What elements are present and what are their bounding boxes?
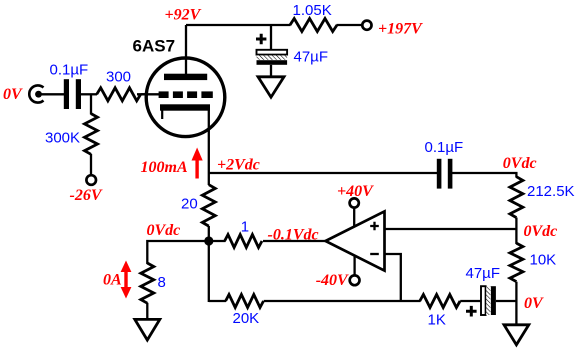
capacitor C3 0.1uF — [437, 159, 453, 189]
wire op-amp minus input — [385, 254, 401, 301]
wire C3 to right rail — [452, 173, 516, 178]
ground below C2 — [258, 77, 284, 97]
svg-text:300: 300 — [106, 69, 131, 86]
resistor R 10K — [510, 243, 523, 281]
wire input to C1 — [42, 93, 65, 95]
svg-text:+2Vdc: +2Vdc — [217, 157, 260, 174]
wire 1.05K to terminal — [337, 24, 363, 26]
wire node B to R1 — [209, 240, 226, 242]
resistor R 1 — [225, 235, 262, 248]
wire +2Vdc rail — [209, 172, 438, 174]
svg-text:+92V: +92V — [165, 7, 202, 24]
svg-text:10K: 10K — [530, 251, 557, 268]
wire bottom rail left — [209, 300, 226, 302]
svg-text:47µF: 47µF — [466, 265, 501, 282]
wire op-amp plus input — [385, 228, 517, 230]
tube grid lead — [137, 93, 160, 95]
resistor R 300K — [85, 114, 98, 155]
wire plate to top rail — [186, 24, 291, 26]
wire +40V to op-amp — [353, 207, 355, 227]
svg-text:0Vdc: 0Vdc — [147, 222, 181, 239]
svg-text:0Vdc: 0Vdc — [503, 155, 537, 172]
wire node B down — [208, 241, 210, 302]
wire C4 to 0V node — [496, 300, 517, 302]
svg-text:0V: 0V — [524, 295, 544, 312]
label plus C4 — [466, 306, 477, 317]
svg-text:+40V: +40V — [337, 183, 374, 200]
svg-text:212.5K: 212.5K — [527, 183, 575, 200]
node B junction — [204, 236, 213, 245]
svg-text:1: 1 — [241, 218, 249, 235]
svg-text:0.1µF: 0.1µF — [50, 62, 89, 79]
terminal -40V — [350, 275, 360, 285]
svg-text:1.05K: 1.05K — [293, 2, 332, 19]
svg-text:+197V: +197V — [378, 21, 423, 38]
input jack J1 — [29, 85, 43, 102]
svg-text:1K: 1K — [428, 312, 446, 329]
svg-text:47µF: 47µF — [294, 49, 329, 66]
wire C1 to node A — [81, 93, 97, 95]
ground right — [504, 325, 529, 345]
wire node A down to R300K — [90, 94, 92, 114]
op-amp plus sign — [370, 222, 379, 231]
wire R8 to ground — [146, 303, 148, 321]
wire node B left — [147, 241, 209, 264]
tube grid dashes — [159, 91, 213, 98]
capacitor C4 47uF electrolytic — [481, 286, 496, 315]
tube plate — [164, 74, 207, 80]
terminal +197V — [362, 21, 371, 30]
resistor R 300 — [97, 88, 141, 101]
wire -40V to op-amp — [353, 255, 355, 276]
wire 212.5K to 10K — [515, 218, 517, 245]
wire R20 to node B — [208, 226, 210, 241]
svg-text:100mA: 100mA — [141, 159, 188, 176]
wire 1K to C4 — [460, 300, 482, 302]
tube cathode — [160, 104, 210, 110]
ground below R8 — [135, 319, 160, 340]
wire C2 to ground — [270, 65, 272, 78]
terminal +40V — [350, 198, 359, 207]
resistor R 1K — [420, 295, 460, 308]
svg-text:0V: 0V — [3, 86, 23, 103]
tube cathode stub — [161, 111, 163, 120]
svg-text:6AS7: 6AS7 — [133, 36, 176, 55]
resistor R 20K — [226, 295, 264, 308]
wire R1 to op-amp output — [263, 240, 326, 242]
terminal -26V — [86, 175, 96, 185]
wire top rail to C2 — [270, 25, 272, 51]
wire cathode down — [208, 111, 210, 186]
svg-text:0.1µF: 0.1µF — [425, 139, 464, 156]
svg-text:20: 20 — [181, 196, 198, 213]
wire 10K to ground — [515, 282, 517, 326]
current arrow 0A — [121, 261, 132, 299]
op-amp minus sign — [370, 253, 379, 255]
wire R300 to tube grid — [141, 93, 160, 95]
svg-text:0Vdc: 0Vdc — [524, 223, 558, 240]
svg-text:8: 8 — [158, 274, 166, 291]
resistor R 20 — [202, 185, 215, 226]
wire bottom rail middle — [264, 300, 421, 302]
wire R300K to -26V terminal — [90, 154, 92, 176]
resistor R 8 — [141, 263, 154, 303]
capacitor C2 47uF electrolytic — [257, 50, 288, 65]
svg-text:-0.1Vdc: -0.1Vdc — [268, 226, 319, 243]
resistor R 212.5K — [510, 177, 523, 218]
tube 6AS7 envelope — [146, 58, 225, 137]
capacitor C1 0.1uF — [64, 79, 81, 109]
svg-text:0A: 0A — [103, 272, 122, 289]
label plus C2 — [256, 34, 266, 44]
current arrow 100mA — [192, 148, 203, 179]
svg-text:300K: 300K — [45, 130, 80, 147]
svg-text:20K: 20K — [233, 310, 260, 327]
tube plate lead — [185, 25, 187, 75]
svg-text:-26V: -26V — [70, 187, 103, 204]
op-amp U1 — [326, 211, 385, 270]
svg-text:-40V: -40V — [316, 272, 349, 289]
resistor R 1.05K — [290, 19, 337, 32]
